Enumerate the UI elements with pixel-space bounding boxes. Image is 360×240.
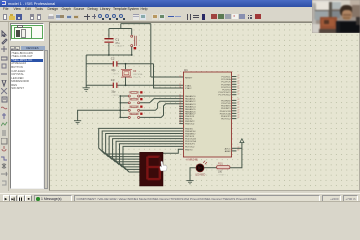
wire seg3 [106,134,184,160]
wire XTAL2 net (upper) [86,63,113,65]
svg-text:12: 12 [179,76,181,78]
svg-text:PC1/SDA: PC1/SDA [221,78,231,81]
window bottom edge [0,201,360,202]
svg-text:12: 12 [179,122,181,124]
wire rail1-rail2 link [120,24,122,29]
svg-text:<TEXT>: <TEXT> [218,173,227,176]
MCU left pin stubs [179,105,183,107]
svg-text:PD5/OC1A: PD5/OC1A [220,112,231,115]
wire seg6 [116,141,183,167]
wire seg5 [113,139,184,165]
P L buttons + DEVICES header [10,46,15,51]
wire B1 to MCU [140,95,184,97]
svg-text:12: 12 [179,84,181,86]
button B4 [119,117,121,119]
svg-text:33p: 33p [111,91,116,94]
list scrollbar [44,50,48,189]
svg-text:RESET: RESET [185,78,193,80]
svg-text:PD7/OC2: PD7/OC2 [185,146,195,148]
status bar [0,193,360,203]
wire button common rail [119,96,121,117]
wire LED to resistor [204,167,217,169]
LED arrows [203,161,205,163]
bottom gap [0,191,360,193]
svg-text:U1: U1 [184,68,188,72]
wire XTAL1 net (lower) [86,84,113,86]
svg-text:LED-RED: LED-RED [195,174,205,176]
svg-text:X3: X3 [133,69,137,73]
MCU U1 body [183,72,231,157]
svg-text:PA1/ADC1: PA1/ADC1 [185,98,196,101]
wire resistor to power [230,142,242,167]
svg-text:PA0/ADC0: PA0/ADC0 [185,95,196,98]
svg-text:R10: R10 [218,162,223,165]
svg-text:PA2/ADC2: PA2/ADC2 [185,100,196,103]
svg-text:PB3/OC0: PB3/OC0 [185,124,195,126]
svg-text:330: 330 [218,170,223,173]
svg-text:33p: 33p [111,69,116,72]
wire rail to ground branch [78,110,121,120]
svg-text:A MR(24B): A MR(24B) [186,159,198,162]
toolbar [0,13,360,22]
title bar [0,0,360,7]
svg-text:C3: C3 [111,78,115,82]
wire seg4 [109,136,183,162]
svg-text:<TEXT>: <TEXT> [111,94,120,97]
ground rail left [85,55,87,88]
resistor R10 [217,166,230,169]
svg-text:C1: C1 [115,37,119,41]
wire seg1 [99,128,184,154]
svg-text:AREF: AREF [225,150,231,153]
ground GND2 [74,120,81,122]
wire B4 to MCU [140,104,184,118]
webcam overlay [312,0,360,33]
wire reset net (bottom rail) [86,54,132,56]
wire LED to ground corner [190,168,196,181]
button B2 [119,102,121,104]
svg-text:22: 22 [237,93,239,95]
ground GND1 [83,87,90,89]
left tool column [0,22,9,191]
menu bar [0,7,360,13]
left panel [9,22,49,191]
svg-text:47u: 47u [115,42,120,45]
MCU right labels and pin stubs [232,76,237,78]
svg-text:12: 12 [179,87,181,89]
mouse cursor [160,161,167,171]
svg-text:CRYSTAL: CRYSTAL [133,73,144,76]
power +V arrow [240,139,244,143]
overview window [10,23,45,41]
button RST1 (reset push button) [131,29,133,35]
button B3 [119,109,121,111]
wire VCC rail1 (reset net to MCU) [121,23,151,25]
wire rail2 (C1/button tops) [109,28,132,30]
wire seg8 [123,146,183,172]
wire seg7 [120,144,184,170]
svg-text:XTAL2: XTAL2 [185,87,192,90]
svg-text:C2: C2 [111,57,115,61]
7-segment display body [140,152,163,186]
svg-text:<TEXT>: <TEXT> [133,76,142,79]
capacitor C3 [113,83,114,88]
wire RST vertical to MCU pin [150,24,152,77]
svg-text:XTAL1: XTAL1 [185,84,192,87]
svg-text:<TEXT>: <TEXT> [115,45,124,48]
svg-text:AVCC: AVCC [225,147,231,150]
ground GND3 (LED) [186,180,193,182]
wire B3 to MCU [140,101,184,110]
LED D1 [196,164,204,172]
canvas [49,22,360,191]
svg-text:PC7/TOSC2: PC7/TOSC2 [218,95,231,97]
svg-text:22: 22 [237,117,239,119]
button B1 [119,95,121,97]
capacitor C2 [113,61,114,66]
crystal X3 [125,64,127,70]
svg-text:PB0/T0: PB0/T0 [185,149,193,151]
svg-text:PD7/OC2: PD7/OC2 [221,119,231,121]
wire AVCC stub to power rail [236,147,242,149]
wire MCU to 7-seg common [163,149,183,153]
capacitor C1 [108,29,110,38]
svg-text:<TEXT>: <TEXT> [111,72,120,75]
svg-text:22: 22 [237,150,239,152]
device list [10,50,44,189]
wire seg2 [102,131,183,157]
7-segment digit segments [148,156,160,158]
wire B2 to MCU [140,99,184,103]
wire C2 corner to XTAL2 pin [154,64,184,88]
